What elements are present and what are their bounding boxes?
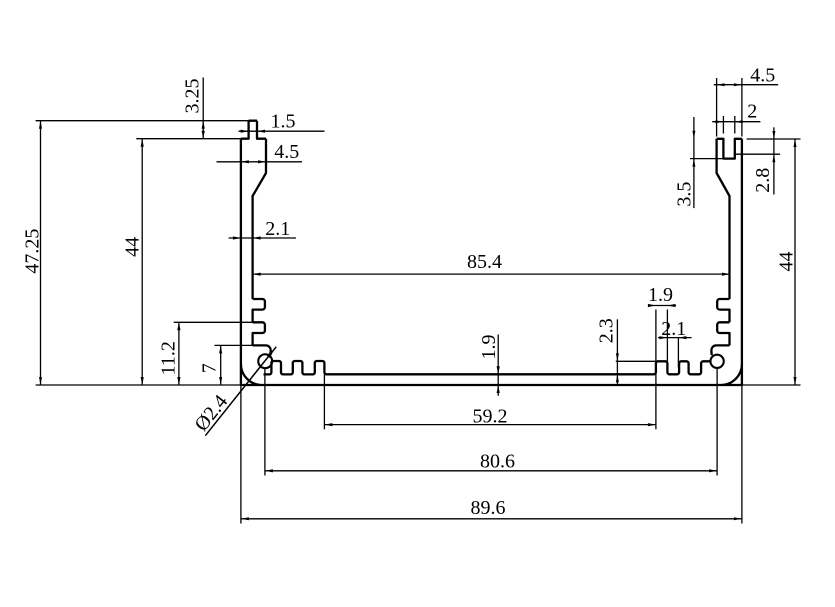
svg-text:2.1: 2.1	[661, 318, 686, 340]
extension line 1.9 right teeth left	[655, 310, 657, 375]
svg-text:2.1: 2.1	[265, 218, 290, 240]
dimension 7	[220, 345, 222, 385]
svg-text:89.6: 89.6	[471, 497, 506, 519]
extension line 59.2 left	[323, 375, 325, 430]
dimension 11.2	[178, 322, 180, 385]
svg-text:44: 44	[122, 237, 144, 257]
svg-text:1.5: 1.5	[271, 110, 296, 132]
dimension 3.5 (slot depth)	[693, 117, 695, 208]
extension line bottom left (47.25 / 44)	[36, 384, 241, 386]
extension line tab top (47.25 / 3.25)	[36, 120, 249, 122]
svg-text:2.3: 2.3	[596, 318, 618, 343]
screw boss circle left (O2.4)	[258, 354, 272, 368]
extension line 89.6 left	[240, 385, 242, 524]
dimension 47.25 (overall height)	[40, 121, 42, 385]
extension line 2 slot right	[734, 116, 736, 134]
floor with retention teeth	[264, 361, 710, 374]
dimension 59.2 (floor flat)	[324, 424, 656, 426]
extension line 59.2 right	[655, 375, 657, 430]
svg-text:59.2: 59.2	[473, 405, 508, 427]
svg-text:3.5: 3.5	[673, 182, 695, 207]
extension line right wall top (2.8 / 44)	[747, 138, 801, 140]
svg-text:7: 7	[199, 363, 221, 373]
dimension 2.8	[773, 127, 775, 194]
extension line left step (44 / 3.25)	[136, 138, 241, 140]
extension line bottom right (44)	[742, 384, 801, 386]
dimension 1.9 left (floor thickness)	[497, 335, 499, 396]
svg-text:85.4: 85.4	[467, 251, 502, 273]
profile main outline	[241, 121, 742, 385]
extension line tooth2 top (11.2)	[174, 321, 253, 323]
extension line 1.9/2.1 shared	[666, 310, 668, 362]
svg-text:4.5: 4.5	[750, 65, 775, 87]
dimension 2.3 (tooth height)	[616, 319, 618, 384]
svg-text:4.5: 4.5	[274, 141, 299, 163]
dimension 85.4 (inner width)	[253, 273, 730, 275]
extension line 89.6 right	[741, 385, 743, 524]
screw boss circle right	[710, 355, 723, 368]
svg-text:1.9: 1.9	[478, 335, 500, 360]
dimension 1.9 (right plateau)	[648, 305, 676, 307]
svg-text:47.25: 47.25	[22, 229, 44, 274]
extension line 2 slot left	[722, 116, 724, 134]
extension line 80.6 left	[264, 369, 266, 476]
extension line 80.6 right	[716, 368, 718, 475]
dimension 2.1 (right groove)	[658, 337, 692, 339]
svg-text:11.2: 11.2	[158, 341, 180, 375]
extension line boss step (7)	[215, 344, 253, 346]
extension line slot shoulder (2.8)	[735, 153, 780, 155]
dimension 2.1 left (wall thickness)	[229, 237, 296, 239]
svg-text:2: 2	[747, 101, 757, 123]
dimension 3.25 (tab height)	[202, 78, 204, 139]
dimension 4.5 left (wall top thickness)	[217, 161, 303, 163]
dimension 89.6 (overall width)	[241, 518, 742, 520]
svg-text:80.6: 80.6	[480, 450, 515, 472]
extension line plateau top (2.3)	[616, 360, 656, 362]
dimension 80.6	[265, 470, 717, 472]
dimension 44 right	[794, 139, 796, 385]
dimension 2 (slot width)	[712, 121, 760, 123]
svg-text:2.8: 2.8	[752, 168, 774, 193]
svg-text:1.9: 1.9	[648, 284, 673, 306]
svg-text:3.25: 3.25	[182, 79, 204, 114]
leader O2.4 (screw hole)	[205, 347, 276, 436]
extension line 2.1 bottom right	[677, 338, 679, 368]
extension line 4.5 top right left	[716, 78, 718, 137]
extension line 4.5 top right right	[741, 78, 743, 137]
dimension 1.5 (tab width)	[239, 130, 325, 132]
extension line slot bottom (3.5)	[690, 158, 723, 160]
dimension 4.5 top right (slot outer width)	[714, 84, 779, 86]
dimension 44 left	[141, 139, 143, 385]
svg-text:44: 44	[776, 252, 798, 272]
